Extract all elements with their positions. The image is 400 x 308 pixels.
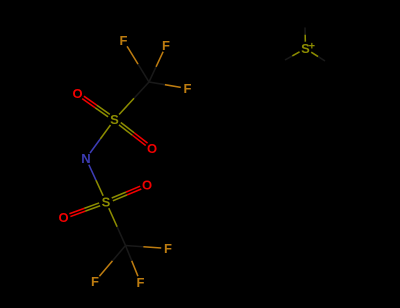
bond S2-C2 [109,208,126,245]
bond S3-M1 [304,28,306,42]
double bond S1=O2 [119,122,148,145]
svg-text:O: O [72,86,82,101]
double bond S2=O3 [112,186,142,201]
bond C2-F5 [99,246,125,277]
svg-text:S: S [102,195,111,210]
svg-text:F: F [137,275,145,290]
double bond S1=O1 [82,96,110,117]
svg-text:N: N [81,151,90,166]
svg-text:O: O [147,141,157,156]
bond C2-F4 [126,246,162,249]
svg-text:O: O [58,210,68,225]
bond C1-F3 [149,82,181,87]
svg-text:O: O [142,178,152,193]
svg-text:S: S [110,112,119,127]
svg-text:F: F [91,274,99,289]
bond S3-M2 [285,52,300,60]
bond S1-C1 [119,82,149,115]
bond C1-F1 [127,46,149,82]
bond N-S2 [89,165,103,196]
svg-text:F: F [162,38,170,53]
svg-text:F: F [184,81,192,96]
bond S1-N [90,125,110,153]
bond S3-M3 [311,52,325,61]
bond C1-F2 [149,52,163,82]
double bond S2=O4 [69,203,100,217]
svg-text:+: + [309,41,315,53]
bond C2-F6 [126,246,138,277]
svg-text:F: F [164,241,172,256]
svg-text:F: F [120,33,128,48]
